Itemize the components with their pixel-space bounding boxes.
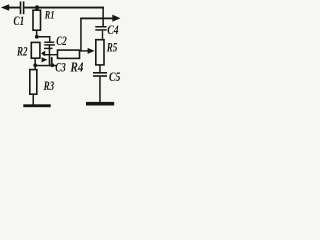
wire from R4 junction up xyxy=(80,18,82,51)
wire R2 to R3 xyxy=(34,58,36,69)
svg-text:R5: R5 xyxy=(106,41,118,55)
svg-text:C5: C5 xyxy=(109,71,121,84)
capacitor C2 xyxy=(44,42,54,43)
wiper arrow of R2 into right side xyxy=(41,51,45,57)
svg-text:R2: R2 xyxy=(16,45,28,59)
junction dot C3 bottom xyxy=(51,63,55,67)
wiper arrow of R2 xyxy=(42,57,48,62)
wire C4 to R5 xyxy=(102,31,103,40)
wire top rail xyxy=(24,7,104,9)
svg-text:C4: C4 xyxy=(107,24,119,37)
input arrow xyxy=(1,4,9,11)
resistor R4 xyxy=(58,50,80,58)
wire node X to R4 xyxy=(43,54,58,55)
capacitor C4 xyxy=(95,26,106,28)
svg-text:C1: C1 xyxy=(13,14,24,28)
wire to output arrow xyxy=(80,18,113,20)
resistor R2 xyxy=(31,42,40,58)
capacitor C5 xyxy=(93,72,107,74)
ground right xyxy=(86,102,114,106)
wire R3 to ground xyxy=(33,95,35,105)
wire junction B to C3 bottom xyxy=(35,65,56,67)
wire node A to C2 xyxy=(37,36,51,38)
svg-text:R3: R3 xyxy=(43,80,55,94)
node A junction dot xyxy=(35,35,39,39)
wire input to C1 xyxy=(8,7,20,9)
svg-text:R4: R4 xyxy=(70,59,84,74)
wire R4 to R5 wiper xyxy=(80,50,89,51)
junction dot B xyxy=(33,63,37,67)
ground left xyxy=(23,104,50,107)
svg-text:R1: R1 xyxy=(44,9,54,22)
resistor R1 xyxy=(33,10,41,30)
wire R1 bottom to node A xyxy=(36,30,38,36)
capacitor C3 plate xyxy=(51,57,53,65)
wire R5 to C5 xyxy=(99,65,101,72)
wire wiper bus xyxy=(49,46,51,66)
capacitor C1 xyxy=(20,1,22,14)
resistor R3 xyxy=(30,70,37,95)
wiper arrow of R5 xyxy=(88,48,95,54)
wire C5 to ground xyxy=(99,77,101,103)
wire rail bend down xyxy=(102,7,104,27)
output arrow xyxy=(112,15,120,22)
wiper tick plate xyxy=(44,48,53,49)
resistor R5 (potentiometer) xyxy=(96,40,104,65)
svg-text:C3: C3 xyxy=(55,61,66,75)
node junction dot top xyxy=(35,5,39,9)
svg-text:C2: C2 xyxy=(56,35,67,49)
